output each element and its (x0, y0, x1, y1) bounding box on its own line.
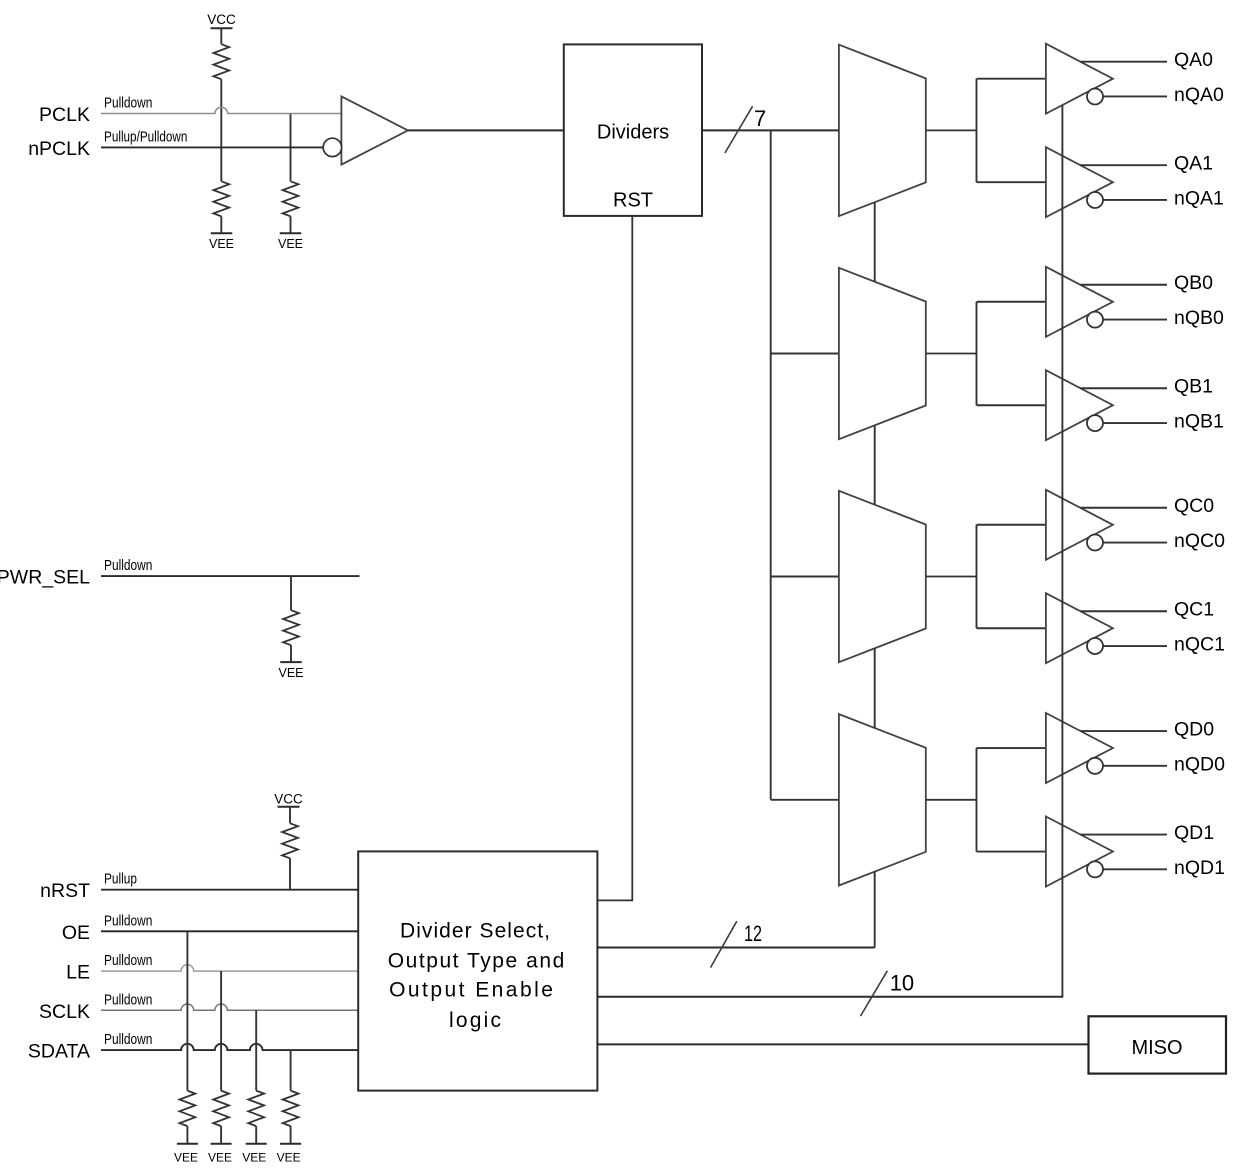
svg-text:VEE: VEE (209, 237, 234, 251)
wire OE (101, 930, 358, 932)
svg-text:Output Type and: Output Type and (388, 949, 565, 972)
resistor R2 (nPCLK pulldown) (213, 181, 229, 216)
inversion bubble (nQA1) (1087, 192, 1103, 208)
svg-text:Pulldown: Pulldown (104, 1031, 152, 1048)
svg-text:VEE: VEE (278, 666, 303, 680)
inversion bubble (nQB0) (1087, 312, 1103, 328)
buffer UB1 (QB1 driver) (1046, 370, 1113, 440)
node QC0 label (1174, 495, 1214, 517)
resistor R3 (PCLK pulldown) (283, 181, 299, 216)
wire SCLK resistor to VEE (255, 1126, 257, 1144)
wire mux M4 output (926, 799, 977, 801)
wire SDATA resistor to VEE (290, 1126, 292, 1144)
svg-text:logic: logic (449, 1009, 501, 1032)
wire OE pulldown branch (186, 931, 188, 1090)
wire U1 output to Dividers (408, 129, 564, 131)
svg-text:QB1: QB1 (1174, 376, 1213, 398)
svg-text:VCC: VCC (274, 791, 303, 806)
inversion bubble (nQB1) (1087, 415, 1103, 431)
svg-text:Pulldown: Pulldown (104, 991, 152, 1008)
svg-text:VEE: VEE (278, 237, 303, 251)
svg-text:nQB1: nQB1 (1174, 410, 1224, 432)
ground VEE (LE) (208, 1144, 232, 1165)
mux M3 (839, 491, 926, 662)
wire nQB1 output (1103, 422, 1167, 424)
wire fanout bracket group B (977, 302, 1046, 406)
resistor R (SCLK pulldown) (248, 1091, 264, 1127)
svg-text:QD0: QD0 (1174, 718, 1214, 740)
node nQC0 label (1174, 530, 1225, 552)
wire 7-bus vertical trunk (770, 130, 772, 799)
svg-text:QB0: QB0 (1174, 272, 1213, 294)
buffer UA1 (QA1 driver) (1046, 147, 1113, 217)
wire nQC1 output (1103, 645, 1167, 647)
bus slash 12 (711, 921, 737, 967)
resistor R (LE pulldown) (213, 1091, 229, 1127)
ground VEE (OE) (174, 1144, 198, 1165)
svg-text:7: 7 (754, 106, 766, 131)
node nQC1 label (1174, 633, 1225, 655)
ground VEE (R4) (278, 662, 303, 680)
wire VCC to R5 (289, 807, 291, 824)
svg-text:QA0: QA0 (1174, 49, 1213, 71)
wire PCLK pulldown branch (290, 114, 292, 182)
wire 10-bus (597, 996, 1063, 998)
node nQD0 label (1174, 753, 1225, 775)
svg-text:Divider Select,: Divider Select, (400, 920, 550, 943)
inversion bubble (nQD0) (1087, 758, 1103, 774)
label Pullup (nRST) (104, 871, 137, 888)
wire SDATA pulldown branch (290, 1050, 292, 1091)
resistor R1 (nPCLK pullup) (213, 44, 229, 79)
wire nQA1 output (1103, 199, 1167, 201)
wire fanout bracket group A (977, 79, 1046, 182)
svg-text:VEE: VEE (174, 1151, 198, 1165)
node LE label (66, 962, 90, 984)
svg-text:MISO: MISO (1131, 1037, 1182, 1059)
buffer UB0 (QB0 driver) (1046, 267, 1113, 337)
power VCC (nPCLK pullup) (207, 12, 236, 28)
wire RST (Dividers to logic box) (597, 216, 632, 901)
wire QC0 output (1080, 507, 1167, 509)
svg-text:SCLK: SCLK (39, 1001, 90, 1023)
wire 12-bus (597, 947, 874, 949)
wire QC1 output (1080, 610, 1167, 612)
svg-text:QA1: QA1 (1174, 153, 1213, 175)
inversion bubble (nQA0) (1087, 89, 1103, 105)
buffer UD1 (QD1 driver) (1046, 817, 1113, 887)
ground VEE (SCLK) (242, 1144, 267, 1165)
node nPCLK label (28, 138, 90, 160)
node PCLK label (39, 104, 90, 126)
wire output-enable vertical (10 bus trunk) (1061, 105, 1063, 997)
buffer UC1 (QC1 driver) (1046, 593, 1113, 663)
node SCLK label (39, 1001, 90, 1023)
wire PWR_SEL pulldown branch (290, 576, 292, 610)
wire mux3 input branch (771, 576, 839, 578)
node QA1 label (1174, 153, 1213, 175)
node PWR_SEL label (0, 567, 90, 589)
svg-text:nQD1: nQD1 (1174, 857, 1225, 879)
resistor R (OE pulldown) (180, 1091, 196, 1127)
wire OE resistor to VEE (186, 1126, 188, 1144)
wire R2 to VEE (220, 216, 222, 233)
svg-text:VEE: VEE (242, 1151, 266, 1165)
label Pulldown (SCLK) (104, 991, 152, 1008)
mux M4 (839, 714, 926, 885)
ground VEE (SDATA) (277, 1144, 302, 1165)
wire SDATA with hops (101, 1044, 358, 1050)
svg-text:RST: RST (613, 190, 653, 212)
inversion bubble (nQC0) (1087, 535, 1103, 551)
svg-text:nQD0: nQD0 (1174, 753, 1225, 775)
wire QB1 output (1080, 387, 1167, 389)
svg-text:10: 10 (890, 971, 914, 996)
wire SCLK with hops (101, 1004, 358, 1010)
wire R1 to nPCLK and R2 (220, 79, 222, 181)
wire nQA0 output (1103, 95, 1167, 97)
wire R4 to VEE (290, 645, 292, 662)
svg-text:QC0: QC0 (1174, 495, 1214, 517)
svg-text:nRST: nRST (40, 880, 90, 902)
node QA0 label (1174, 49, 1213, 71)
svg-text:SDATA: SDATA (28, 1041, 90, 1063)
svg-text:LE: LE (66, 962, 90, 984)
mux M1 (839, 45, 926, 216)
bus slash 7 (725, 106, 753, 153)
resistor R (SDATA pulldown) (283, 1091, 299, 1127)
svg-text:PCLK: PCLK (39, 104, 90, 126)
wire mux M1 output (926, 129, 977, 131)
wire QA0 output (1080, 61, 1167, 63)
wire nRST (101, 889, 358, 891)
label 7 (bus width) (754, 106, 766, 131)
label Pulldown (PCLK) (104, 95, 152, 112)
ground VEE (R3) (278, 233, 303, 251)
inversion bubble (nQC1) (1087, 638, 1103, 654)
node nQB0 label (1174, 307, 1224, 329)
svg-text:Pulldown: Pulldown (104, 912, 152, 929)
bus slash 10 (861, 971, 888, 1016)
svg-text:nPCLK: nPCLK (28, 138, 90, 160)
block U3 Divider Select / Output Type / Output Enable logic (358, 851, 597, 1090)
buffer UA0 (QA0 driver) (1046, 44, 1113, 114)
label 12 (bus width) (744, 921, 762, 946)
buffer U1 (PCLK input buffer) (323, 96, 408, 164)
wire R3 to VEE (290, 216, 292, 233)
wire mux select M2-M3 (874, 425, 876, 504)
wire LE resistor to VEE (220, 1126, 222, 1144)
mux M2 (839, 268, 926, 439)
wire Dividers output (7 bus) (702, 129, 839, 131)
svg-text:OE: OE (62, 922, 90, 944)
wire mux select M3-M4 (874, 648, 876, 728)
wire QB0 output (1080, 284, 1167, 286)
svg-text:nQC1: nQC1 (1174, 633, 1225, 655)
svg-text:Pulldown: Pulldown (104, 557, 152, 574)
inversion bubble (nQD1) (1087, 861, 1103, 877)
svg-text:Pulldown: Pulldown (104, 95, 152, 112)
svg-text:Pullup: Pullup (104, 871, 137, 888)
wire mux2 input branch (771, 353, 839, 355)
svg-text:Output Enable: Output Enable (389, 979, 553, 1002)
wire mux select M4 to 12-bus (874, 872, 876, 948)
label Pulldown (LE) (104, 952, 152, 969)
wire mux select M1-M2 (874, 202, 876, 282)
wire SCLK pulldown branch (255, 1010, 257, 1090)
svg-text:nQA1: nQA1 (1174, 187, 1224, 209)
wire fanout bracket group D (977, 748, 1046, 852)
svg-text:12: 12 (744, 921, 762, 946)
wire mux M3 output (926, 576, 977, 578)
block MISO (1089, 1016, 1227, 1073)
svg-text:nQC0: nQC0 (1174, 530, 1225, 552)
power VCC (nRST pullup) (274, 791, 303, 806)
svg-text:VCC: VCC (207, 12, 236, 27)
svg-text:Pullup/Pulldown: Pullup/Pulldown (104, 128, 187, 145)
svg-text:Dividers: Dividers (597, 122, 669, 144)
node QB1 label (1174, 376, 1213, 398)
node QB0 label (1174, 272, 1213, 294)
ground VEE (R2) (209, 233, 234, 251)
resistor R5 (nRST pullup) (282, 823, 298, 858)
wire nQB0 output (1103, 319, 1167, 321)
wire nQD1 output (1103, 868, 1167, 870)
node OE label (62, 922, 90, 944)
label Pulldown (OE) (104, 912, 152, 929)
wire PWR_SEL (101, 575, 360, 577)
buffer UD0 (QD0 driver) (1046, 713, 1113, 783)
label 10 (bus width) (890, 971, 914, 996)
svg-text:nQA0: nQA0 (1174, 84, 1224, 106)
node QD0 label (1174, 718, 1214, 740)
wire LE pulldown branch (220, 971, 222, 1091)
svg-text:nQB0: nQB0 (1174, 307, 1224, 329)
wire nQD0 output (1103, 765, 1167, 767)
node nRST label (40, 880, 90, 902)
svg-text:VEE: VEE (208, 1151, 232, 1165)
wire R5 to nRST (289, 858, 291, 889)
node QC1 label (1174, 599, 1214, 621)
svg-text:QD1: QD1 (1174, 822, 1214, 844)
svg-text:PWR_SEL: PWR_SEL (0, 567, 90, 589)
svg-text:Pulldown: Pulldown (104, 952, 152, 969)
wire QA1 output (1080, 164, 1167, 166)
node nQD1 label (1174, 857, 1225, 879)
wire mux M2 output (926, 353, 977, 355)
wire VCC to R1 (220, 28, 222, 44)
resistor R4 (PWR_SEL pulldown) (283, 610, 299, 645)
label Pullup/Pulldown (nPCLK) (104, 128, 187, 145)
wire nPCLK (101, 146, 324, 148)
label Pulldown (SDATA) (104, 1031, 152, 1048)
node nQA0 label (1174, 84, 1224, 106)
block U2 Dividers (564, 44, 702, 216)
node SDATA label (28, 1041, 90, 1063)
node nQB1 label (1174, 410, 1224, 432)
wire QD0 output (1080, 730, 1167, 732)
wire nQC0 output (1103, 542, 1167, 544)
wire fanout bracket group C (977, 525, 1046, 629)
label Pulldown (PWR_SEL) (104, 557, 152, 574)
buffer UC0 (QC0 driver) (1046, 490, 1113, 560)
wire MISO (597, 1043, 1088, 1045)
node QD1 label (1174, 822, 1214, 844)
wire QD1 output (1080, 834, 1167, 836)
node nQA1 label (1174, 187, 1224, 209)
wire LE with hop (101, 965, 358, 971)
wire mux4 input branch (771, 799, 839, 801)
wire PCLK with hop (101, 107, 341, 113)
svg-text:QC1: QC1 (1174, 599, 1214, 621)
svg-text:VEE: VEE (277, 1151, 301, 1165)
